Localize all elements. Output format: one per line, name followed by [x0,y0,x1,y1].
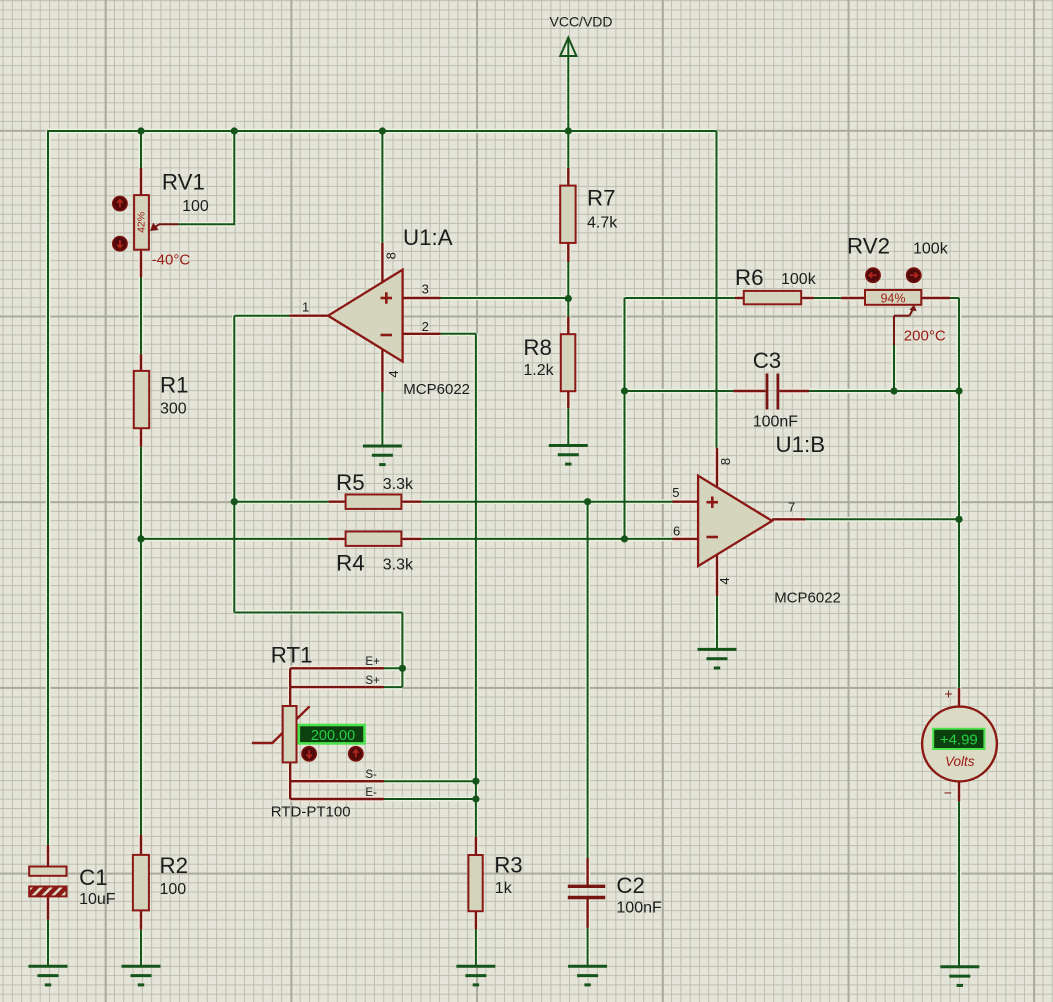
svg-text:6: 6 [673,524,680,539]
ground under R2 [122,966,161,985]
voltmeter pin bottom [958,778,960,801]
RV1 pin bottom [140,250,142,277]
RT1 pin top [289,668,291,706]
wire: R5 row right to U1:B pin5 [422,501,673,503]
C2 pin top [586,858,588,886]
resistor R4 body [346,532,402,546]
ground under U1:A pin4 [363,446,402,465]
voltmeter display +4.99 [933,729,984,749]
junction node wiper rail [231,127,238,134]
wire: RT1 E+/S+ tie x=402.4 [401,613,403,688]
RT1 S- lead [290,780,384,782]
junction node C3 left [621,387,628,394]
svg-text:Volts: Volts [945,754,975,769]
wire: U1:B pin4 to ground [716,596,718,649]
R8 pin top [567,317,569,335]
wire: gap between R6 and RV2 [814,297,842,299]
wire: U1:B pin7 output run [806,518,959,520]
wire: E- row green to riser [340,798,476,800]
svg-text:94%: 94% [880,291,905,305]
wire: C1 bottom to ground [47,920,49,967]
junction node R4/pin6 [621,535,628,542]
wire: output run right to RT1 column [234,612,402,614]
capacitor C2 plates [568,886,605,897]
wire: supply branch x=716.5 to U1:B pin8 [716,131,718,448]
U1:B pin 5 lead [673,501,699,503]
svg-text:8: 8 [718,458,733,465]
svg-text:RTD-PT100: RTD-PT100 [271,803,351,820]
wire: VCC stem down to rail [567,40,569,131]
wire: R1 bottom down to R2 [140,447,142,835]
RV2 thumbwheel left [866,268,880,282]
wire: left rail x=48 down to C1 [47,130,49,845]
svg-text:RV1: RV1 [162,170,205,195]
wire: RV2 wiper riser [893,345,895,391]
svg-text:4: 4 [386,370,401,377]
R7 pin top [567,168,569,186]
svg-text:R6: R6 [735,265,764,290]
junction node R5/C2 [584,498,591,505]
junction node R4 left [137,535,144,542]
wire: U1:A output run left [234,315,289,317]
svg-text:−: − [944,785,952,801]
wire: C3 row left [625,390,734,392]
U1:A pin 1 lead [290,315,329,317]
potentiometer RV2 body [865,290,921,305]
svg-text:10uF: 10uF [79,891,116,908]
wire: R2 bottom to ground [140,930,142,967]
svg-text:8: 8 [383,252,398,259]
svg-text:MCP6022: MCP6022 [774,590,841,607]
svg-text:S+: S+ [365,675,380,687]
svg-text:200°C: 200°C [904,327,946,344]
svg-text:100: 100 [160,881,187,898]
wire: feedback node corner x=624.5 [624,298,626,539]
svg-text:5: 5 [672,485,679,500]
svg-text:R3: R3 [494,852,523,877]
U1:B pin 8 lead [716,448,718,489]
R8 pin bottom [567,391,569,408]
resistor R1 body [134,371,149,428]
C1 pin bottom [47,896,49,919]
svg-text:100k: 100k [913,240,949,257]
ground under C1 [29,966,68,985]
RV2 pin right [920,297,950,299]
junction node C3/RV2 wiper [890,387,897,394]
RT1 temperature display 200.00 [299,725,365,743]
wire: RV1 wiper riser x=234.3 up to top rail [233,131,235,224]
svg-text:3.3k: 3.3k [383,476,414,493]
junction node VCC rail [565,127,572,134]
voltmeter pin top [958,688,960,708]
op-amp U1:B triangle [698,476,772,566]
svg-text:S-: S- [365,769,377,781]
R3 pin top [475,837,477,855]
RV1 pin top [140,168,142,196]
wire: feedback riser x=475.9 down to R3 [475,334,477,837]
RT1 thumbwheel down [302,747,316,761]
potentiometer RV1 body [134,195,149,250]
svg-text:MCP6022: MCP6022 [403,381,470,398]
wire: U1:A pin8 supply branch x=382.4 [381,131,383,243]
wire: rail to R7 top lead [567,131,569,168]
R6 pin left [735,297,744,299]
wire: R8 bottom to ground [567,408,569,445]
capacitor C1 top plate [29,867,66,876]
power symbol VCC arrow [560,38,576,57]
junction node U1:A pin8 rail [379,127,386,134]
wire: C2 branch down from R5 row [587,502,589,858]
svg-text:R1: R1 [160,373,189,398]
wire: U1:A pin4 to ground [381,392,383,446]
ground under U1:B pin4 [698,649,737,668]
wire: S+ row green [340,686,402,688]
svg-text:R8: R8 [523,335,552,360]
U1:A pin 3 lead [403,297,441,299]
R5 pin right [401,501,421,503]
R4 pin right [401,538,421,540]
svg-text:E-: E- [365,787,377,799]
RV2 pin left [841,297,865,299]
op-amp U1:A triangle [328,270,403,362]
wire: R6 row left segment [625,297,736,299]
U1:A pin 2 lead [403,333,441,335]
wire: E+ row green [340,667,402,669]
junction node C3 right rail [955,387,962,394]
junction node RV1 top [137,127,144,134]
U1:B pin 6 lead [673,538,699,540]
C2 pin bottom [586,898,588,928]
svg-text:R4: R4 [336,551,365,576]
svg-text:RV2: RV2 [847,233,890,258]
svg-text:R2: R2 [160,853,189,878]
R2 pin bottom [140,910,142,929]
U1:B pin 7 lead [772,518,806,520]
svg-text:R5: R5 [336,470,365,495]
svg-text:3.3k: 3.3k [383,557,414,574]
svg-text:200.00: 200.00 [311,728,355,744]
svg-text:E+: E+ [365,656,380,668]
wire: main top rail y=131 from left rail to right branch [48,130,717,132]
C3 pin left [733,390,765,392]
RV1 wiper arrow [150,223,179,232]
junction node R7/R8 divider [565,295,572,302]
wire: U1:A pin3 to R7/R8 divider node [441,297,569,299]
wire: S- row green to riser [340,780,476,782]
svg-text:C2: C2 [616,873,645,898]
U1:B minus mark [707,536,719,539]
resistor R7 body [560,186,575,243]
voltmeter body [922,707,997,782]
wire: C3 row right [808,390,959,392]
svg-text:-40°C: -40°C [152,252,191,269]
wire: C2 bottom to ground [587,928,589,966]
R1 pin top [140,354,142,371]
wire: R4 row left from R1 branch [141,538,329,540]
resistor R8 body [561,334,576,391]
U1:A pin 4 lead [381,349,383,392]
wire: U1:A pin2 run to feedback riser [441,333,476,335]
RT1 S+ lead [290,686,384,688]
svg-text:+4.99: +4.99 [940,732,978,749]
wire: R7/R8 junction stub [567,262,569,317]
RT1 pin bottom [289,762,291,799]
svg-text:4: 4 [717,577,732,584]
ground under R3 [456,966,495,985]
ground under voltmeter [940,967,979,986]
junction node E- riser [472,795,479,802]
R2 pin top [140,835,142,855]
svg-text:100nF: 100nF [753,413,799,430]
wire: RV1 bottom to R1 top [140,277,142,354]
svg-text:VCC/VDD: VCC/VDD [550,14,613,30]
R6 pin right [801,297,814,299]
svg-text:U1:B: U1:B [776,432,826,457]
resistor R2 body [133,855,149,911]
U1:A pin 8 lead [381,243,383,283]
RT1 thumbwheel up [349,747,363,761]
RV1 thumbwheel down [113,237,127,251]
resistor R5 body [346,495,402,509]
U1:B plus mark [707,497,719,508]
wire: right rail x=959 down to voltmeter [950,297,959,299]
wire: RV1 wiper horizontal to riser [179,223,236,225]
ground under C2 [568,966,607,985]
R5 pin left [329,501,346,503]
svg-text:42%: 42% [136,212,148,233]
RTD RT1 body [283,706,297,762]
svg-text:U1:A: U1:A [403,225,453,250]
svg-text:1.2k: 1.2k [523,362,554,379]
wire: R3 bottom to ground [475,929,477,966]
wire: R5 row left from output riser [234,501,328,503]
capacitor C3 plates [767,374,778,410]
ground under R8 [549,446,588,465]
RV2 wiper arrow [894,305,917,345]
svg-text:100k: 100k [781,271,817,288]
svg-text:R7: R7 [587,186,616,211]
svg-text:100nF: 100nF [616,900,662,917]
svg-text:+: + [944,686,952,702]
R7 pin bottom [567,243,569,262]
capacitor C1 bottom plate (hatched) [29,887,66,897]
svg-text:3: 3 [422,282,429,297]
svg-text:1: 1 [302,300,309,315]
svg-text:4.7k: 4.7k [587,214,618,231]
wire: voltmeter bottom to ground [958,801,960,967]
RT1 thermistor diagonal [252,706,310,743]
U1:A plus mark [381,292,393,303]
wire: output riser x=234.3 down [233,316,235,613]
RT1 E+ lead [290,667,384,669]
R4 pin left [329,538,346,540]
wire: RV1 branch top [140,131,142,168]
resistor R6 body [744,291,801,304]
svg-text:300: 300 [160,401,187,418]
C1 pin top [47,845,49,867]
R1 pin bottom [140,428,142,447]
svg-text:2: 2 [422,319,429,334]
svg-text:7: 7 [788,500,795,515]
junction node S- riser [472,778,479,785]
U1:B pin 4 lead [716,555,718,597]
R3 pin bottom [475,911,477,929]
junction node R5 left [231,498,238,505]
wire: R4 row right to U1:B pin6 [422,538,673,540]
junction node pin7 rail [955,516,962,523]
C3 pin right [779,390,809,392]
U1:A minus mark [381,334,393,337]
resistor R3 body [468,855,482,911]
svg-text:RT1: RT1 [271,643,313,668]
svg-text:100: 100 [182,198,209,215]
RV2 thumbwheel right [907,268,921,282]
RT1 E- lead [290,798,384,800]
svg-text:C1: C1 [79,865,108,890]
svg-text:C3: C3 [753,348,782,373]
svg-text:1k: 1k [495,880,513,897]
RV1 thumbwheel up [113,196,127,210]
junction node E+ tie [399,665,406,672]
